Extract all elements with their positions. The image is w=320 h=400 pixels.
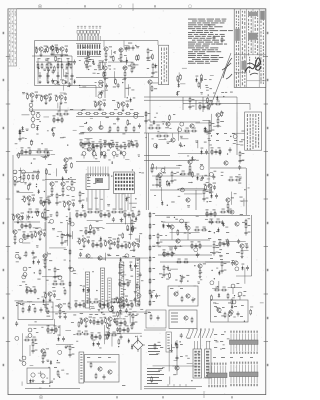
ground [85, 324, 88, 327]
wire [21, 333, 23, 358]
label value [26, 92, 29, 95]
label [97, 72, 100, 75]
junction dot [131, 315, 132, 316]
wire [12, 155, 14, 232]
wire [78, 257, 148, 259]
capacitor [163, 272, 166, 277]
junction dot [34, 272, 35, 273]
label [15, 142, 18, 145]
label [124, 66, 127, 69]
label [140, 335, 142, 338]
label [95, 197, 98, 200]
wire [157, 239, 159, 240]
wire [243, 249, 248, 251]
resistor [45, 292, 47, 298]
label [216, 267, 218, 270]
wire [59, 106, 61, 111]
label [152, 138, 154, 141]
transistor Q10 [39, 47, 43, 51]
capacitor [203, 196, 206, 201]
resistor [177, 229, 179, 235]
junction dot [48, 311, 49, 312]
transistor Q91 [234, 261, 238, 265]
resistor [53, 66, 55, 72]
capacitor [203, 104, 206, 109]
label [127, 46, 130, 49]
wire [63, 69, 65, 77]
capacitor [245, 230, 248, 235]
label [17, 180, 20, 183]
diode [81, 204, 83, 209]
wire [190, 245, 202, 247]
label [166, 278, 169, 281]
transistor Q73 [86, 254, 90, 258]
label [210, 218, 213, 221]
capacitor [127, 302, 130, 307]
label [239, 140, 242, 143]
ground [133, 248, 136, 251]
capacitor [37, 170, 40, 175]
label [151, 75, 154, 78]
resistor [56, 113, 62, 115]
resistor [155, 127, 161, 129]
label [238, 173, 240, 176]
junction dot [134, 298, 135, 299]
label [36, 208, 39, 211]
resistor [105, 317, 107, 323]
label [97, 229, 99, 232]
notes text [188, 19, 233, 64]
label [122, 132, 125, 135]
label [111, 143, 113, 146]
resistor [68, 302, 70, 308]
transistor [178, 128, 182, 132]
ground [120, 59, 123, 62]
label [98, 53, 101, 56]
junction dot [214, 278, 215, 279]
capacitor [120, 144, 123, 149]
resistor [203, 189, 205, 195]
label pair [162, 223, 164, 226]
junction dot [55, 47, 56, 48]
junction dot [135, 45, 136, 46]
wire [189, 164, 191, 165]
wire [158, 246, 161, 248]
resistor [69, 281, 71, 287]
junction dot [161, 221, 162, 222]
wire [90, 117, 93, 119]
resistor [191, 130, 197, 132]
label pair [138, 154, 140, 157]
capacitor [174, 245, 177, 250]
resistor [64, 289, 66, 295]
diode [19, 130, 21, 135]
wire [205, 213, 217, 215]
ground [122, 108, 125, 111]
resistor [194, 229, 200, 231]
label [81, 154, 84, 157]
capacitor [112, 217, 115, 222]
wire [249, 103, 251, 110]
transistor [70, 222, 74, 226]
capacitor [128, 212, 131, 217]
diode [216, 96, 218, 101]
label [124, 54, 127, 57]
wire [87, 220, 103, 222]
label [211, 221, 213, 224]
label [241, 138, 245, 141]
label [52, 286, 55, 289]
resistor [56, 95, 58, 101]
junction dot [22, 199, 23, 200]
junction dot [214, 232, 215, 233]
wire [99, 61, 107, 63]
label [92, 140, 95, 143]
resistor [117, 237, 119, 243]
resistor [163, 251, 165, 257]
label [24, 254, 26, 257]
label [18, 302, 21, 305]
resistor [93, 319, 95, 325]
label [150, 49, 153, 52]
label [24, 238, 26, 241]
resistor [227, 203, 229, 209]
capacitor [30, 288, 33, 293]
resistor [88, 141, 90, 147]
junction dot [191, 182, 192, 183]
label [162, 366, 164, 369]
resistor [18, 152, 20, 158]
ground [121, 303, 124, 306]
label [167, 216, 170, 219]
label value [44, 291, 47, 294]
transistor [15, 254, 19, 258]
transistor Q64 [48, 292, 52, 296]
angled pin comb [186, 328, 214, 338]
capacitor [103, 154, 106, 159]
label [158, 132, 161, 135]
resistor [91, 334, 93, 340]
label [230, 176, 233, 179]
junction dot [112, 162, 113, 163]
capacitor [117, 83, 120, 88]
label [22, 130, 25, 133]
junction dot [180, 246, 181, 247]
label [127, 196, 130, 199]
wire [98, 62, 100, 70]
label [156, 241, 158, 244]
label [216, 286, 219, 289]
label [117, 332, 121, 335]
transistor Q50 [216, 113, 220, 117]
capacitor [51, 79, 54, 84]
ground [189, 171, 192, 174]
label [122, 78, 124, 81]
junction dot [118, 346, 119, 347]
label [169, 247, 173, 250]
label [135, 242, 138, 245]
resistor [159, 178, 161, 184]
junction dot [20, 176, 21, 177]
label [63, 136, 66, 139]
wire [167, 226, 171, 228]
label [95, 81, 97, 84]
resistor [104, 141, 106, 147]
label [174, 172, 177, 175]
resistor [93, 229, 95, 235]
label [48, 62, 51, 65]
ground [217, 124, 220, 127]
wire [196, 122, 209, 124]
label [191, 240, 194, 243]
wire [87, 176, 89, 181]
capacitor [52, 132, 55, 137]
label [120, 208, 123, 211]
resistor [52, 45, 54, 51]
transistor Q31 [61, 182, 65, 186]
label [219, 248, 222, 251]
capacitor [134, 297, 137, 302]
label [196, 226, 199, 229]
capacitor [116, 327, 119, 332]
wire [19, 135, 21, 136]
label [63, 302, 66, 305]
label [73, 333, 75, 336]
transistor [50, 219, 54, 223]
label [92, 302, 94, 305]
junction dot [180, 275, 181, 276]
label [173, 252, 175, 255]
wire [40, 228, 42, 233]
label [185, 258, 188, 261]
resistor [127, 327, 129, 333]
label [164, 138, 166, 141]
wire [33, 227, 41, 229]
transistor Q5 [123, 66, 127, 70]
resistor [94, 211, 100, 213]
wire [14, 300, 22, 302]
label band [55, 313, 147, 316]
wire [122, 60, 127, 62]
resistor [100, 242, 102, 248]
transistor Q120 [158, 173, 162, 177]
transistor Q60 [16, 214, 20, 218]
resistor [21, 223, 23, 229]
transistor Q62 [38, 231, 42, 235]
wire [25, 290, 37, 292]
wire vertical chain [69, 212, 71, 305]
label [221, 171, 224, 174]
resistor [124, 71, 126, 77]
junction dot [112, 243, 113, 244]
wire [144, 96, 212, 98]
wire [37, 67, 39, 75]
bus wire 2 [144, 388, 196, 390]
wire [123, 214, 135, 216]
diode [21, 126, 23, 131]
resistor [61, 117, 63, 123]
wire [125, 315, 128, 317]
label [155, 71, 158, 74]
label [133, 215, 136, 218]
resistor [93, 146, 95, 152]
capacitor [84, 141, 87, 146]
capacitor [108, 142, 111, 147]
resistor [29, 223, 31, 229]
connector strip CN1 [193, 349, 202, 378]
wire [195, 100, 197, 110]
capacitor [239, 158, 242, 163]
label [67, 85, 69, 88]
label [91, 331, 94, 334]
label [66, 194, 69, 197]
label [54, 280, 57, 283]
capacitor [105, 83, 108, 88]
junction dot [69, 260, 70, 261]
capacitor [61, 240, 64, 245]
label [99, 299, 102, 302]
wire [160, 187, 162, 201]
label Q64 value [53, 290, 56, 293]
diode [120, 218, 122, 223]
label pair [110, 55, 113, 58]
resistor [71, 162, 73, 168]
title block [234, 9, 266, 88]
wire [60, 99, 62, 102]
wire [236, 144, 240, 146]
capacitor [62, 336, 65, 341]
junction dot [208, 95, 209, 96]
capacitor [125, 47, 128, 52]
diode [218, 293, 220, 298]
capacitor [238, 165, 241, 170]
diode [37, 189, 39, 194]
transistor Q2 [104, 47, 108, 51]
junction dot [31, 163, 32, 164]
wire [44, 214, 46, 215]
label [80, 138, 83, 141]
resistor [59, 309, 61, 315]
junction dot [239, 252, 240, 253]
wire [61, 239, 63, 240]
label [206, 214, 210, 217]
label pair [46, 359, 49, 362]
wire [183, 102, 250, 104]
resistor [78, 321, 80, 327]
wire [79, 86, 100, 88]
label [99, 239, 102, 242]
transistor pair 2 [22, 356, 26, 366]
label [197, 173, 200, 176]
wire [124, 70, 126, 71]
transistor [53, 80, 57, 84]
label [130, 324, 133, 327]
label [156, 352, 159, 355]
resistor [227, 239, 229, 245]
junction dot [224, 331, 225, 332]
diode [126, 59, 128, 64]
resistor [84, 212, 86, 218]
wire [28, 200, 30, 203]
label [55, 304, 58, 307]
wire [42, 353, 44, 354]
transistor [125, 254, 129, 258]
label [159, 176, 162, 179]
ground [14, 241, 17, 244]
wire [129, 315, 131, 323]
label [108, 144, 110, 147]
label [19, 152, 22, 155]
wire [172, 365, 197, 367]
junction dot [97, 180, 98, 181]
wire [127, 144, 139, 146]
label [108, 64, 111, 67]
label Q22 value [64, 93, 67, 96]
label value [23, 195, 26, 198]
label [47, 195, 51, 198]
label [140, 308, 143, 311]
label [189, 232, 191, 235]
label [96, 323, 99, 326]
resistor [107, 302, 109, 308]
label [112, 99, 115, 102]
resistor [110, 143, 112, 149]
label [65, 110, 68, 113]
resistor [124, 143, 126, 149]
wire [171, 344, 173, 352]
diode [92, 342, 94, 347]
label [58, 334, 61, 337]
label [239, 196, 242, 199]
wire [187, 230, 189, 240]
resistor [27, 93, 29, 99]
junction dot [82, 143, 83, 144]
transistor Q111 [240, 244, 244, 248]
wire [244, 267, 246, 283]
label value [104, 316, 107, 319]
resistor [241, 249, 243, 255]
wire [152, 175, 210, 177]
label [42, 179, 45, 182]
capacitor row in module [39, 72, 74, 79]
transistor Q110 [64, 158, 68, 162]
junction dot [40, 121, 41, 122]
transistor Q6 [98, 101, 102, 105]
label pair [195, 140, 198, 143]
resistor [180, 173, 186, 175]
label [213, 240, 216, 243]
IC U11 bottom-right [230, 362, 259, 387]
wire [230, 192, 232, 205]
ground [49, 298, 52, 301]
resistor [148, 127, 154, 129]
label [53, 332, 55, 335]
label [41, 216, 44, 219]
label [88, 298, 91, 301]
junction dot [49, 385, 50, 386]
wire [132, 311, 136, 313]
capacitor [113, 318, 116, 323]
resistor [129, 242, 131, 248]
capacitor [126, 103, 129, 108]
label [193, 285, 195, 288]
resistor [13, 214, 15, 220]
junction dot [180, 341, 181, 342]
transistor [134, 114, 138, 118]
wire [121, 274, 127, 276]
label [238, 295, 240, 298]
wire [74, 304, 86, 306]
